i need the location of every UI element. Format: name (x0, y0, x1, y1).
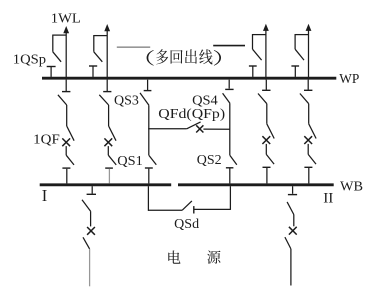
annotation (multiple outgoing lines) (147, 49, 221, 65)
svg-text:QFd(QFp): QFd(QFp) (158, 106, 225, 122)
label WP (339, 71, 359, 86)
disconnector QSd (148, 201, 230, 214)
label I (section I) (42, 186, 48, 205)
svg-text:QS2: QS2 (197, 152, 222, 167)
svg-text:QSd: QSd (174, 216, 199, 231)
label QSd (174, 216, 199, 231)
wire feeder-1 mid (66, 105, 68, 126)
wire source-2 (293, 215, 295, 227)
disconnector feeder-2 lower (WB side) (105, 155, 116, 183)
disconnector feeder-1 lower (WB side) (62, 155, 74, 183)
label 1QF (33, 132, 60, 147)
disconnector QS1 (145, 155, 156, 183)
wire leg-B vertical (229, 103, 231, 155)
disconnector feeder-2 upper (WP side) (99, 80, 111, 105)
disconnector bypass (feeder 3) (249, 34, 266, 77)
svg-text:II: II (323, 190, 333, 207)
label QS4 (192, 92, 218, 107)
svg-text:QS4: QS4 (192, 92, 218, 107)
disconnector source-1 (below WB I) (82, 186, 96, 211)
busbar WB section II (178, 183, 334, 186)
wire leg-B below WB to QSd (229, 186, 231, 210)
svg-text:WP: WP (339, 71, 359, 86)
label QS1 (117, 153, 143, 168)
disconnector QS2 (226, 155, 237, 183)
wire source-1 lower (89, 249, 91, 286)
outgoing line arrow (feeder 3) (263, 24, 269, 80)
svg-text:1WL: 1WL (51, 10, 81, 25)
circuit breaker source-2 (285, 227, 297, 249)
disconnector bypass (feeder 2) (89, 35, 107, 77)
label QS3 (114, 93, 139, 108)
svg-text:1QF: 1QF (33, 132, 60, 147)
wire QFd left segment (148, 128, 187, 130)
busbar WB section I (40, 183, 172, 186)
label II (section II) (323, 190, 333, 207)
disconnector feeder-1 upper (WP side) (58, 80, 71, 105)
continuation dash left (more feeders) (117, 46, 150, 48)
disconnector feeder-4 upper (WP side) (300, 80, 316, 184)
svg-text:I: I (42, 186, 48, 205)
disconnector 1QSp (bypass) (47, 35, 66, 77)
circuit breaker 1QF (62, 126, 74, 155)
disconnector QS3 (140, 80, 151, 106)
wire source-2 lower (290, 249, 292, 286)
circuit breaker (feeder 2) (104, 126, 116, 155)
label 1WL (51, 10, 81, 25)
wire source-1 (90, 211, 92, 226)
wire leg-A below WB to QSd (147, 186, 149, 211)
label WB (340, 179, 363, 194)
disconnector source-2 (below WB II) (287, 186, 297, 214)
outgoing line arrow (feeder 2) (104, 24, 110, 80)
label 1QSp (13, 51, 46, 66)
svg-text:1QSp: 1QSp (13, 51, 46, 66)
disconnector QS4 (223, 80, 234, 104)
circuit breaker source-1 (83, 227, 95, 249)
disconnector feeder-3 upper (WP side) (258, 80, 274, 184)
wire leg-A vertical (148, 105, 150, 155)
disconnector bypass (feeder 4) (291, 34, 308, 77)
label QFd(QFp) (158, 106, 225, 122)
annotation power source (168, 250, 220, 263)
svg-text:WB: WB (340, 179, 363, 194)
outgoing line 1WL with arrow (63, 26, 69, 80)
busbar WP (bypass bus) (42, 77, 336, 80)
svg-text:QS1: QS1 (117, 153, 143, 168)
svg-text:QS3: QS3 (114, 93, 139, 108)
label QS2 (197, 152, 222, 167)
wire feeder-2 mid (108, 105, 110, 126)
circuit breaker QFd (QFp) (187, 122, 230, 133)
outgoing line arrow (feeder 4) (306, 24, 312, 80)
continuation dash right (more feeders) (213, 45, 245, 47)
